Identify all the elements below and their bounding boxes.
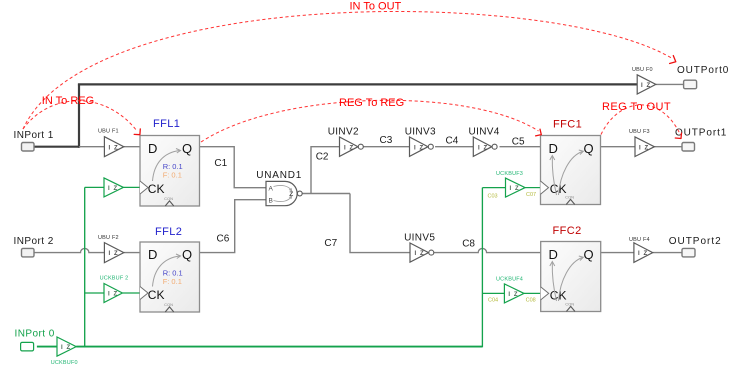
svg-text:F: 0.1: F: 0.1 <box>163 277 182 286</box>
clock buffer UCKBUF4 <box>488 277 536 304</box>
wire junction vertical up (dark) <box>78 84 80 147</box>
svg-text:INPort 2: INPort 2 <box>14 236 54 247</box>
svg-text:UCKBUF4: UCKBUF4 <box>496 277 523 283</box>
svg-text:OUTPort1: OUTPort1 <box>675 127 727 138</box>
svg-text:D: D <box>148 247 157 262</box>
wire net C2 up to UINV2 <box>311 147 340 194</box>
svg-text:D: D <box>148 141 157 156</box>
svg-text:I Z: I Z <box>478 145 488 151</box>
svg-text:C8: C8 <box>462 238 475 249</box>
nand gate UNAND1 <box>256 170 302 206</box>
wire clock trunk to UCKBUF1 (green) <box>85 186 104 188</box>
svg-text:R: 0.1: R: 0.1 <box>163 162 183 171</box>
wire net C6: FFL2 Q to UNAND1 B <box>200 200 267 253</box>
clock buffer UCKBUF1 (unlabelled) <box>104 178 123 197</box>
clock buffer UCKBUF2 <box>100 276 129 303</box>
svg-text:IN To OUT: IN To OUT <box>350 1 402 13</box>
wire net C8: UINV5 out to FFC2 D with hop over clock <box>434 248 541 252</box>
wire clock trunk branch to UCKBUF4 (green) <box>482 292 504 294</box>
svg-text:I Z: I Z <box>510 186 520 192</box>
svg-text:CK: CK <box>148 182 165 196</box>
wire top horizontal to UBUF0 (dark) <box>78 83 637 85</box>
svg-text:UCKBUF0: UCKBUF0 <box>51 360 78 366</box>
wire clock right trunk vertical (green) <box>481 188 483 348</box>
svg-text:UINV3: UINV3 <box>405 126 436 137</box>
svg-text:UCKBUF3: UCKBUF3 <box>496 171 523 177</box>
buffer UBUF2 <box>98 235 124 262</box>
svg-text:UINV2: UINV2 <box>328 126 359 137</box>
svg-text:CON: CON <box>565 195 574 200</box>
svg-text:UINV4: UINV4 <box>469 126 500 137</box>
flip-flop FFL1 <box>140 118 200 206</box>
wire UBUF0 to OUTPort0 <box>656 83 684 85</box>
wire UBUF2 out to FFL2 D <box>124 252 140 254</box>
wire clock trunk to UCKBUF3 (green) <box>482 187 505 189</box>
wire UBUF4 to OUTPort2 <box>653 252 682 254</box>
wire UBUF3 to OUTPort1 <box>654 146 682 148</box>
svg-text:I Z: I Z <box>108 292 118 298</box>
wire UBUF1 out to FFL1 D <box>124 146 140 148</box>
buffer UBUF1 <box>98 129 124 157</box>
arrow B to Z <box>274 197 292 202</box>
svg-text:OUTPort2: OUTPort2 <box>669 236 722 247</box>
wire net C1: FFL1 Q to UNAND1 A <box>200 147 267 188</box>
svg-text:UCKBUF 2: UCKBUF 2 <box>100 276 129 282</box>
svg-text:C4: C4 <box>446 136 459 147</box>
wire clock INPort0 to UCKBUF0 (green) <box>37 346 57 348</box>
svg-text:C6: C6 <box>217 234 230 245</box>
clock buffer UCKBUF3 <box>488 171 537 200</box>
svg-text:Q: Q <box>584 141 594 156</box>
port INPort 2 <box>14 236 54 257</box>
FFL1 arrow CK to Q <box>153 151 180 182</box>
timing arc IN To OUT <box>23 1 676 129</box>
svg-text:C03: C03 <box>488 194 498 200</box>
svg-text:I Z: I Z <box>414 145 424 151</box>
wire clock left trunk vertical (green) <box>84 187 86 347</box>
inverter UINV4 <box>469 126 500 156</box>
svg-text:Q: Q <box>584 247 594 262</box>
FFC2 arrow CK to D <box>552 263 556 302</box>
wire INPort2 to UBUF2 with hop over clock trunk <box>34 248 105 252</box>
wire UCKBUF4 out to FFC2 CK (green) <box>524 292 541 294</box>
svg-text:UNAND1: UNAND1 <box>256 170 302 181</box>
inverter UINV2 <box>328 126 364 156</box>
wire UCKBUF1 out to FFL1 CK (green) <box>123 186 140 188</box>
flip-flop FFC2 <box>541 225 601 312</box>
wire net C5 to FFC1 D <box>500 146 541 148</box>
svg-text:A: A <box>269 185 274 192</box>
svg-text:I Z: I Z <box>61 345 71 351</box>
svg-text:D: D <box>549 141 558 156</box>
svg-text:D: D <box>549 247 558 262</box>
FFC1 clock wedge <box>541 181 549 194</box>
wire INPort1 to junction (dark) <box>34 146 79 148</box>
wire FFC2 Q to UBUF4 <box>601 252 634 254</box>
timing arc REG To REG <box>201 97 541 142</box>
svg-text:INPort 0: INPort 0 <box>15 329 55 340</box>
svg-text:Q: Q <box>182 247 192 262</box>
svg-text:I Z: I Z <box>508 292 518 298</box>
FFL1 clock wedge <box>140 181 148 194</box>
wire net C3 <box>364 146 410 148</box>
svg-text:B: B <box>269 197 273 204</box>
port OUTPort0 <box>677 65 729 89</box>
svg-text:I Z: I Z <box>344 145 354 151</box>
wire UCKBUF3 out to FFC1 CK (green) <box>525 187 540 189</box>
svg-text:FFL2: FFL2 <box>155 226 182 238</box>
clock buffer UCKBUF0 <box>51 337 78 366</box>
FFC2 clock wedge <box>541 287 549 300</box>
port OUTPort2 <box>669 236 722 257</box>
svg-text:C1: C1 <box>214 158 227 169</box>
FFL2 clock wedge <box>140 287 148 300</box>
wire UNAND1 output horizontal <box>302 193 350 195</box>
timing arc IN To REG <box>23 95 140 135</box>
FFL2 arrow CK to Q <box>153 256 180 287</box>
svg-text:CK: CK <box>148 288 165 302</box>
wire net C7 down to UINV5 <box>350 194 410 253</box>
wire clock UCKBUF0 out + bottom horizontal (green) <box>76 346 482 348</box>
svg-text:F: 0.1: F: 0.1 <box>163 171 182 180</box>
flip-flop FFL2 <box>140 226 200 312</box>
inverter UINV5 <box>404 232 435 262</box>
svg-text:I Z: I Z <box>415 251 425 257</box>
svg-text:Q: Q <box>182 141 192 156</box>
port INPort 1 <box>14 130 54 151</box>
arrow A to Z <box>274 185 292 190</box>
svg-text:CON: CON <box>565 302 574 307</box>
svg-text:C2: C2 <box>316 152 329 163</box>
buffer UBUF0 <box>632 67 656 94</box>
svg-text:OUTPort0: OUTPort0 <box>677 65 729 76</box>
FFC1 arrow CK to D <box>552 157 556 196</box>
buffer UBUF3 <box>629 129 654 157</box>
svg-text:C7: C7 <box>324 238 337 249</box>
svg-text:INPort 1: INPort 1 <box>14 130 54 141</box>
svg-text:I Z: I Z <box>109 145 119 151</box>
wire net C4 <box>435 146 473 148</box>
svg-text:I Z: I Z <box>638 251 648 257</box>
svg-text:I Z: I Z <box>641 83 651 89</box>
svg-text:C3: C3 <box>380 135 393 146</box>
FFC2 arrow CK to Q <box>559 258 583 302</box>
wire UCKBUF2 out to FFL2 CK (green) <box>122 292 140 294</box>
svg-text:I Z: I Z <box>109 251 119 257</box>
svg-text:UBU F3: UBU F3 <box>629 129 650 135</box>
inverter UINV3 <box>405 126 436 156</box>
wire clock trunk branch to UCKBUF2 (green) <box>85 292 104 294</box>
svg-text:FFC2: FFC2 <box>553 225 582 237</box>
svg-text:CON: CON <box>164 196 173 201</box>
timing arc REG To OUT <box>601 101 682 139</box>
svg-text:UBU F1: UBU F1 <box>98 129 119 135</box>
svg-text:C07: C07 <box>526 192 536 198</box>
svg-text:FFL1: FFL1 <box>153 118 180 130</box>
wire FFC1 Q to UBUF3 <box>601 146 636 148</box>
svg-text:C04: C04 <box>488 297 498 303</box>
port OUTPort1 <box>675 127 727 151</box>
svg-text:REG To OUT: REG To OUT <box>602 101 671 113</box>
svg-text:CON: CON <box>164 302 173 307</box>
port INPort 0 (clock) <box>15 329 55 351</box>
svg-text:I Z: I Z <box>108 186 118 192</box>
svg-text:UBU F0: UBU F0 <box>632 67 653 73</box>
svg-text:UINV5: UINV5 <box>404 232 435 243</box>
svg-text:C08: C08 <box>526 297 536 303</box>
flip-flop FFC1 <box>541 119 601 205</box>
buffer UBUF4 <box>629 237 653 262</box>
svg-text:REG To REG: REG To REG <box>339 97 404 109</box>
svg-text:UBU F2: UBU F2 <box>98 235 119 241</box>
svg-text:FFC1: FFC1 <box>553 119 582 131</box>
svg-text:R: 0.1: R: 0.1 <box>163 268 183 277</box>
svg-text:I Z: I Z <box>639 145 649 151</box>
svg-text:UBU F4: UBU F4 <box>629 237 650 243</box>
FFC1 arrow CK to Q <box>559 152 583 196</box>
svg-text:C5: C5 <box>512 136 525 147</box>
wire junction to UBUF1 input <box>79 146 104 148</box>
svg-text:IN To REG: IN To REG <box>42 95 94 107</box>
